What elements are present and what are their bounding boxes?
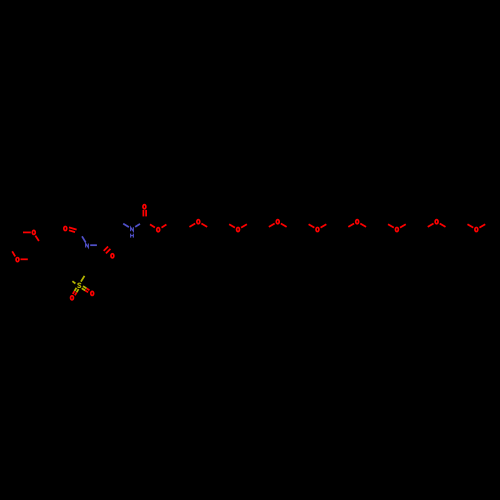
atom O8 carbamate ester oxygen	[157, 228, 160, 232]
atom O7 carbamate carbonyl oxygen	[143, 205, 146, 209]
atom O6 sulfonyl oxygen	[91, 291, 94, 295]
bond O15-C stub (right)	[440, 224, 446, 227]
bond O2-ring stub (horizontal right)	[21, 258, 28, 260]
bond O10-C stub (right)	[241, 224, 247, 227]
double bond C=O4 stubs	[104, 247, 111, 254]
atom N2 hydrogen label	[131, 234, 134, 238]
bond O1-CH3 stub (horizontal left)	[23, 231, 31, 233]
atom O12 ether oxygen (PEG)	[316, 227, 319, 231]
bond S1-CH3 stub (up-left)	[72, 281, 75, 283]
bond O16-C stub (right)	[479, 224, 485, 227]
double bond S1=O6 stubs	[82, 286, 90, 292]
atom O10 ether oxygen (PEG)	[237, 227, 240, 231]
bond O2-CH3 stub (up-left)	[12, 251, 15, 256]
double bond C=O3 stubs	[69, 227, 77, 232]
bond C-O14 stub (left)	[388, 224, 394, 227]
bond C-O11 stub (left)	[269, 224, 275, 227]
atom N1 imide nitrogen	[86, 244, 89, 248]
bond C-O12 stub (left)	[309, 224, 315, 227]
atom O14 ether oxygen (PEG)	[395, 227, 398, 231]
bond O13-C stub (right)	[360, 224, 366, 227]
bond S1-CH2 stub (up-right)	[81, 276, 85, 282]
bond C-O13 stub (left)	[348, 224, 354, 227]
bond N1-C(=O) stub (up-left)	[82, 236, 86, 242]
bond O1-ring stub (down-right)	[35, 236, 39, 241]
atom N2 carbamate nitrogen	[131, 227, 134, 231]
atom O11 ether oxygen (PEG)	[276, 220, 279, 224]
bond C-O10 stub (left)	[229, 224, 235, 227]
atom S1 sulfonyl sulfur	[78, 283, 81, 287]
bond O14-C stub (right)	[400, 224, 406, 227]
bond N2-C(=O) stub (up-right)	[135, 224, 140, 227]
bond N2-CH2 stub (up-left)	[123, 224, 129, 228]
bond C-O15 stub (left)	[428, 224, 434, 227]
atom O4 imide carbonyl oxygen	[111, 254, 114, 258]
atom O16 ether oxygen (PEG)	[475, 227, 478, 231]
bond C-O16 stub (left)	[467, 224, 473, 227]
atom O13 ether oxygen (PEG)	[356, 220, 359, 224]
atom O2 methoxy oxygen	[16, 258, 19, 262]
double bond C=O7 stubs (vertical)	[143, 210, 146, 217]
bond O8-CH2 stub (up-right)	[162, 225, 167, 228]
atom O9 ether oxygen (PEG)	[197, 220, 200, 224]
bond N1-C(=O) stub (right)	[90, 244, 97, 246]
bond O11-C stub (right)	[281, 224, 287, 227]
atom O3 imide carbonyl oxygen	[64, 226, 67, 230]
atom O5 sulfonyl oxygen	[71, 296, 74, 300]
bond C-O9 stub (left)	[189, 224, 195, 227]
bond O8-C(=O) stub (up-left)	[150, 224, 155, 227]
bond O9-C stub (right)	[201, 224, 207, 227]
atom O15 ether oxygen (PEG)	[435, 220, 438, 224]
atom O1 methoxy oxygen	[32, 230, 35, 234]
bond O12-C stub (right)	[321, 224, 327, 227]
double bond S1=O5 stubs	[73, 288, 79, 295]
